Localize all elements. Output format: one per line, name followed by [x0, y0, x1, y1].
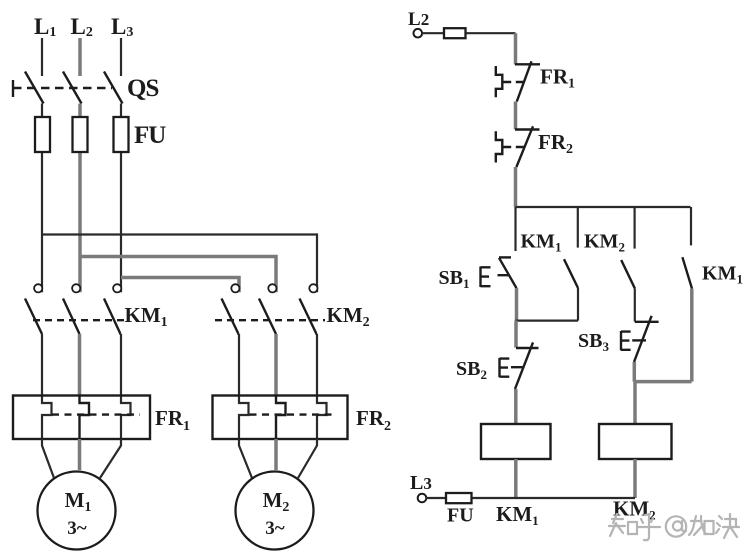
svg-text:3~: 3~ [265, 518, 285, 539]
svg-text:3~: 3~ [67, 518, 87, 539]
svg-text:QS: QS [127, 75, 158, 102]
svg-text:L2: L2 [408, 9, 429, 30]
svg-text:FU: FU [447, 505, 474, 527]
svg-text:L3: L3 [410, 472, 432, 494]
svg-text:FU: FU [134, 122, 166, 149]
